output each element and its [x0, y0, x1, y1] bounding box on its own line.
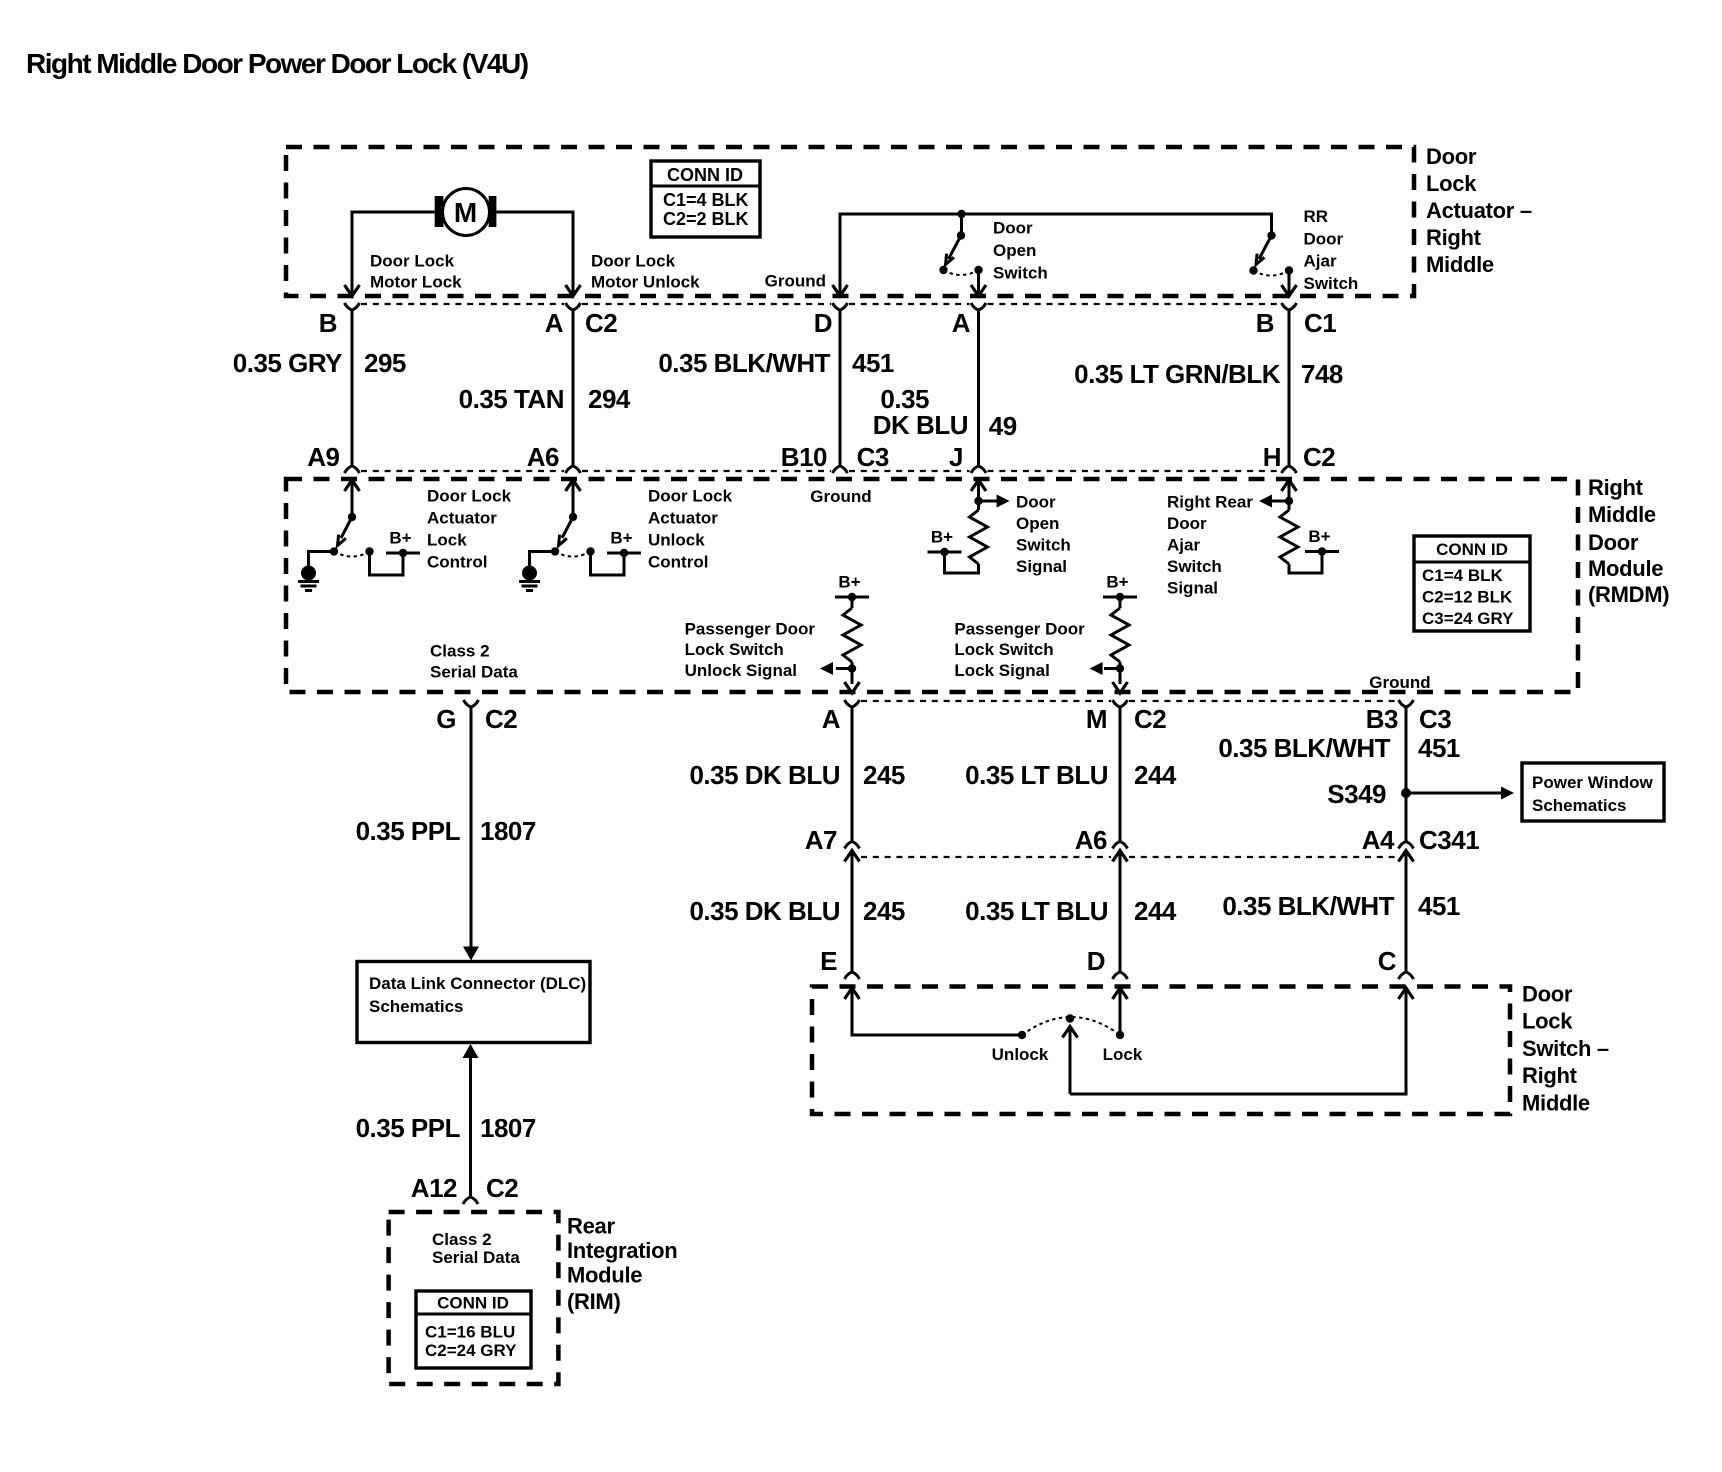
signal arrow left: [1104, 667, 1120, 670]
wire to ground: [530, 552, 556, 566]
C341 terminal pair at A7: [845, 842, 860, 862]
wire 748 LT GRN/BLK: [1288, 314, 1291, 466]
svg-text:0.35 BLK/WHT: 0.35 BLK/WHT: [1218, 733, 1390, 763]
wire 245 DK BLU (upper): [851, 713, 854, 842]
arrow at pin J: [971, 480, 986, 491]
svg-text:Door Lock: Door Lock: [591, 252, 676, 271]
svg-text:B: B: [319, 308, 337, 338]
right rear door ajar switch signal circuit: [1167, 480, 1339, 598]
wire to ground: [309, 552, 335, 566]
entry arrow E: [845, 988, 860, 999]
svg-text:(RMDM): (RMDM): [1588, 582, 1669, 607]
wire D to lock contact: [1119, 988, 1122, 1031]
svg-text:Serial Data: Serial Data: [430, 663, 518, 682]
unlock contact dot: [1018, 1031, 1026, 1039]
terminal A (switch): [971, 303, 986, 316]
B+ feed: [386, 529, 420, 558]
terminal A6: [566, 466, 581, 473]
terminal B10: [833, 466, 848, 473]
svg-text:245: 245: [863, 896, 905, 926]
svg-text:A6: A6: [1075, 825, 1107, 855]
svg-text:Switch: Switch: [1167, 557, 1222, 576]
CONN ID table (RIM): [416, 1291, 531, 1368]
junction dot: [1285, 497, 1293, 505]
contact dot right: [365, 547, 373, 555]
pivot dot: [348, 513, 356, 521]
svg-text:Signal: Signal: [1016, 557, 1067, 576]
lever with arrow: [949, 236, 962, 260]
wire 451 BLK/WHT (lower): [1405, 851, 1408, 973]
wire 451 BLK/WHT (upper): [1405, 713, 1408, 842]
arrow at pin A6: [566, 480, 581, 491]
signal arrow left: [1271, 500, 1289, 503]
signal arrow left: [836, 667, 852, 670]
terminal C (switch): [1399, 972, 1414, 979]
travel arc: [334, 552, 370, 557]
arrow into DLC: [463, 947, 479, 961]
svg-text:244: 244: [1134, 896, 1177, 926]
svg-text:0.35 LT BLU: 0.35 LT BLU: [965, 760, 1108, 790]
svg-text:A: A: [822, 704, 841, 734]
DLC box: [357, 962, 590, 1043]
svg-text:0.35 PPL: 0.35 PPL: [356, 816, 461, 846]
svg-text:Switch –: Switch –: [1522, 1036, 1609, 1061]
travel arc: [555, 552, 591, 557]
svg-text:B: B: [1256, 308, 1274, 338]
arrow to power window schematics: [1406, 792, 1501, 795]
arrow into pin B (ajar): [1282, 285, 1297, 296]
svg-text:C1: C1: [1304, 308, 1336, 338]
C341 terminal pair at A4: [1399, 842, 1414, 862]
svg-text:Door Lock: Door Lock: [427, 487, 512, 506]
pivot dot: [1267, 231, 1275, 239]
CONN ID table (RMDM): [1414, 536, 1530, 631]
svg-text:Lock Signal: Lock Signal: [954, 661, 1049, 680]
ground symbol: [519, 566, 540, 591]
svg-text:Switch: Switch: [1016, 536, 1071, 555]
switch stem: [960, 214, 963, 236]
svg-text:(RIM): (RIM): [567, 1289, 620, 1314]
junction dot: [848, 664, 856, 672]
svg-text:295: 295: [364, 348, 406, 378]
wire 244 LT BLU (upper): [1119, 713, 1122, 842]
svg-text:Schematics: Schematics: [1532, 796, 1627, 815]
B+ feed: [1305, 527, 1339, 556]
svg-text:B3: B3: [1366, 704, 1398, 734]
wire from terminal: [1288, 480, 1291, 510]
RMDM box (dashed): [286, 479, 1578, 692]
arrow into pin A: [566, 285, 581, 296]
travel arc (dashed): [1254, 271, 1290, 276]
svg-text:245: 245: [863, 760, 905, 790]
svg-text:0.35 DK BLU: 0.35 DK BLU: [689, 760, 840, 790]
label: Door Lock Actuator - Right Middle: [1426, 144, 1532, 277]
svg-text:A: A: [952, 308, 971, 338]
svg-text:Rear: Rear: [567, 1214, 615, 1239]
label: Right Middle Door Module (RMDM): [1588, 475, 1669, 607]
svg-text:0.35 BLK/WHT: 0.35 BLK/WHT: [658, 348, 830, 378]
terminal B (ajar): [1282, 303, 1297, 316]
contact dot right: [1285, 266, 1293, 274]
wire: [1119, 597, 1122, 608]
door lock actuator unlock control switch: [519, 480, 733, 591]
svg-text:Open: Open: [993, 241, 1036, 260]
B+ feed: [835, 573, 869, 602]
svg-text:0.35 LT BLU: 0.35 LT BLU: [965, 896, 1108, 926]
contact dot right: [974, 266, 982, 274]
junction dot: [1116, 664, 1124, 672]
svg-text:Actuator –: Actuator –: [1426, 198, 1532, 223]
svg-text:Module: Module: [1588, 556, 1663, 581]
svg-text:Ground: Ground: [765, 272, 826, 291]
svg-text:Lock Switch: Lock Switch: [954, 640, 1053, 659]
wire to connector: [977, 272, 980, 294]
travel arc (dashed): [944, 270, 979, 275]
contact dot right: [586, 547, 594, 555]
svg-text:DK BLU: DK BLU: [873, 410, 968, 440]
wire down to pivot: [572, 480, 575, 517]
svg-text:0.35 TAN: 0.35 TAN: [459, 384, 564, 414]
B+ feed: [1103, 573, 1137, 602]
svg-text:Unlock: Unlock: [992, 1045, 1049, 1064]
svg-text:E: E: [820, 946, 837, 976]
female terminal A12: [463, 1197, 478, 1204]
svg-text:451: 451: [1418, 733, 1460, 763]
terminal E: [845, 972, 860, 979]
lever with arrow: [341, 517, 352, 538]
svg-text:Middle: Middle: [1522, 1091, 1590, 1116]
B+ feed: [607, 529, 641, 558]
female terminal M: [1113, 700, 1128, 713]
junction dot: [974, 497, 982, 505]
svg-text:M: M: [454, 197, 477, 228]
svg-text:Lock: Lock: [427, 531, 467, 550]
resistor: [843, 608, 861, 662]
terminal B: [345, 303, 360, 316]
wire 451 BLK/WHT: [839, 314, 842, 466]
terminal J: [971, 466, 986, 473]
pull-up resistor: [970, 510, 988, 564]
female terminal B3: [1399, 700, 1414, 713]
wire 295 GRY: [351, 314, 354, 466]
svg-text:Module: Module: [567, 1263, 642, 1288]
pivot dot: [1066, 1014, 1074, 1022]
svg-text:Door: Door: [1304, 229, 1344, 248]
svg-text:Door Lock: Door Lock: [648, 487, 733, 506]
svg-text:A9: A9: [307, 442, 339, 472]
wire: motor lock side: [352, 212, 435, 294]
svg-text:M: M: [1086, 704, 1107, 734]
svg-text:S349: S349: [1327, 779, 1386, 809]
arrow at pin H: [1282, 480, 1297, 491]
RR door ajar switch SW2: [1249, 207, 1358, 294]
wire C to common: [1070, 988, 1406, 1094]
svg-text:C2: C2: [1303, 442, 1335, 472]
svg-text:Class 2: Class 2: [432, 1230, 492, 1249]
svg-text:Right: Right: [1426, 225, 1482, 250]
svg-text:Door: Door: [993, 219, 1033, 238]
wire down to pivot: [351, 480, 354, 517]
exit arrow down: [1113, 682, 1128, 693]
svg-text:G: G: [436, 704, 456, 734]
wire to B+: [370, 553, 404, 575]
svg-text:Door: Door: [1016, 493, 1056, 512]
svg-text:0.35 PPL: 0.35 PPL: [356, 1113, 461, 1143]
entry arrow D: [1113, 988, 1128, 999]
pull-up resistor: [1280, 510, 1298, 564]
svg-text:Door: Door: [1522, 982, 1573, 1007]
svg-text:Power Window: Power Window: [1532, 773, 1654, 792]
arrow into pin A (switch): [971, 285, 986, 296]
signal arrow right: [979, 500, 998, 503]
svg-text:B10: B10: [781, 442, 827, 472]
svg-text:Control: Control: [427, 553, 487, 572]
female terminal A: [845, 700, 860, 713]
entry arrow C: [1399, 988, 1414, 999]
arrow into pin D: [833, 285, 848, 296]
svg-text:Door: Door: [1426, 144, 1477, 169]
svg-text:Ajar: Ajar: [1167, 536, 1200, 555]
travel arc: [1022, 1017, 1120, 1035]
wire: ground jumper in actuator: [840, 214, 1272, 296]
lever with arrow: [562, 517, 573, 538]
wire from terminal: [977, 480, 980, 510]
wire to connector: [1288, 273, 1291, 295]
svg-text:Ground: Ground: [1369, 673, 1430, 692]
splice S349: [1401, 788, 1411, 798]
label: Door Lock Switch - Right Middle: [1522, 982, 1609, 1116]
svg-text:C1=4 BLK: C1=4 BLK: [663, 190, 749, 210]
svg-text:Ajar: Ajar: [1304, 252, 1337, 271]
door lock actuator lock control switch: [298, 480, 512, 591]
svg-text:Schematics: Schematics: [369, 997, 464, 1016]
wire: motor unlock side: [496, 212, 573, 294]
power window schematics box: [1522, 763, 1664, 821]
svg-text:Data Link Connector (DLC): Data Link Connector (DLC): [369, 974, 586, 993]
wire to B+: [591, 553, 625, 575]
svg-text:A7: A7: [805, 825, 837, 855]
arrow into pin B: [345, 285, 360, 296]
svg-text:Unlock: Unlock: [648, 531, 705, 550]
svg-text:0.35 LT GRN/BLK: 0.35 LT GRN/BLK: [1074, 359, 1281, 389]
svg-text:Class 2: Class 2: [430, 642, 490, 661]
wire down: [851, 662, 854, 684]
svg-text:J: J: [949, 442, 963, 472]
svg-text:Actuator: Actuator: [648, 509, 718, 528]
terminal A: [566, 303, 581, 316]
svg-text:Open: Open: [1016, 514, 1059, 533]
svg-text:0.35 GRY: 0.35 GRY: [233, 348, 342, 378]
lever with arrow: [1259, 236, 1272, 260]
svg-text:C1=4 BLK: C1=4 BLK: [1422, 566, 1503, 585]
svg-text:Door: Door: [1588, 530, 1639, 555]
exit arrow down: [845, 682, 860, 693]
junction dot on jumper: [957, 210, 965, 218]
wire: [851, 597, 854, 608]
svg-text:RR: RR: [1304, 207, 1329, 226]
svg-text:Switch: Switch: [993, 264, 1048, 283]
svg-text:A6: A6: [527, 442, 559, 472]
svg-text:Door: Door: [1167, 514, 1207, 533]
svg-text:C2=12 BLK: C2=12 BLK: [1422, 588, 1513, 607]
svg-text:0.35 BLK/WHT: 0.35 BLK/WHT: [1222, 891, 1394, 921]
wire 1807 PPL (upper): [470, 713, 473, 948]
RIM box (dashed): [389, 1212, 559, 1384]
svg-text:C2: C2: [486, 1173, 518, 1203]
CONN ID table (actuator): [651, 161, 760, 237]
svg-text:Right: Right: [1522, 1063, 1578, 1088]
svg-text:Lock: Lock: [1426, 171, 1477, 196]
svg-text:Motor Lock: Motor Lock: [370, 273, 462, 292]
svg-text:294: 294: [588, 384, 631, 414]
svg-text:451: 451: [1418, 891, 1460, 921]
wire 294 TAN: [572, 314, 575, 466]
wire 49 DK BLU: [977, 314, 980, 466]
arrow out of DLC bottom: [463, 1044, 479, 1058]
svg-text:Passenger Door: Passenger Door: [954, 620, 1085, 639]
svg-text:Integration: Integration: [567, 1238, 677, 1263]
svg-text:C3=24 GRY: C3=24 GRY: [1422, 609, 1514, 628]
svg-text:Passenger Door: Passenger Door: [685, 620, 816, 639]
female terminal G: [464, 700, 479, 713]
svg-text:Right: Right: [1588, 475, 1644, 500]
connector line row1 (thin dashed): [361, 303, 1280, 305]
svg-text:Signal: Signal: [1167, 579, 1218, 598]
B+ feed: [928, 528, 962, 557]
svg-text:A12: A12: [411, 1173, 457, 1203]
svg-text:Lock: Lock: [1103, 1045, 1143, 1064]
terminal H: [1282, 466, 1297, 473]
terminal D (switch): [1113, 972, 1128, 979]
wire to B+: [945, 552, 979, 573]
svg-text:C341: C341: [1419, 825, 1479, 855]
door lock switch box (dashed): [812, 987, 1510, 1115]
label: Class 2 Serial Data (RIM): [432, 1230, 520, 1267]
svg-text:C2: C2: [1134, 704, 1166, 734]
passenger door lock switch unlock signal circuit: [685, 573, 869, 694]
svg-text:C2: C2: [585, 308, 617, 338]
svg-text:451: 451: [852, 348, 894, 378]
contact dot left: [330, 547, 338, 555]
label: Rear Integration Module (RIM): [567, 1214, 677, 1315]
svg-text:Right Middle Door Power Door L: Right Middle Door Power Door Lock (V4U): [26, 48, 528, 79]
pivot dot: [569, 513, 577, 521]
connector line row3 (thin dashed): [861, 700, 1397, 702]
svg-text:Control: Control: [648, 553, 708, 572]
svg-text:0.35 DK BLU: 0.35 DK BLU: [689, 896, 840, 926]
common pole arrow up: [1069, 1029, 1072, 1094]
motor M: [435, 189, 497, 236]
svg-text:C2: C2: [485, 704, 517, 734]
door lock actuator box (dashed): [286, 147, 1414, 296]
svg-text:C3: C3: [857, 442, 889, 472]
svg-text:H: H: [1263, 442, 1281, 472]
svg-text:C3: C3: [1419, 704, 1451, 734]
svg-text:Switch: Switch: [1304, 274, 1359, 293]
svg-text:Lock: Lock: [1522, 1009, 1573, 1034]
svg-text:Unlock Signal: Unlock Signal: [685, 661, 797, 680]
wire down: [1119, 662, 1122, 684]
wire E to unlock contact: [852, 988, 1022, 1035]
wire to B+: [1289, 552, 1322, 574]
svg-text:49: 49: [989, 411, 1017, 441]
svg-text:Middle: Middle: [1588, 502, 1656, 527]
lock switch internals: [845, 988, 1414, 1094]
contact dot left: [939, 266, 947, 274]
contact dot left: [1249, 266, 1257, 274]
svg-text:Middle: Middle: [1426, 252, 1494, 277]
svg-text:CONN ID: CONN ID: [437, 1294, 509, 1313]
lock contact dot: [1116, 1031, 1124, 1039]
inline connector C341 (thin dashed): [861, 856, 1397, 858]
wire 1807 PPL (lower): [469, 1058, 472, 1197]
pivot dot: [957, 231, 965, 239]
svg-text:Door Lock: Door Lock: [370, 252, 455, 271]
door open switch signal circuit: [928, 480, 1071, 576]
svg-text:Motor Unlock: Motor Unlock: [591, 273, 700, 292]
arrow at pin A9: [345, 480, 360, 491]
label: Door Lock Motor Unlock: [591, 252, 700, 292]
svg-text:A: A: [545, 308, 564, 338]
contact dot left: [551, 547, 559, 555]
ground symbol: [298, 566, 319, 591]
svg-text:Serial Data: Serial Data: [432, 1248, 520, 1267]
svg-text:D: D: [814, 308, 832, 338]
connector line row2 (thin dashed): [361, 470, 1280, 472]
svg-text:Lock Switch: Lock Switch: [685, 640, 784, 659]
svg-text:A4: A4: [1362, 825, 1395, 855]
label: Door Lock Motor Lock: [370, 252, 462, 292]
resistor: [1111, 608, 1129, 662]
label: Class 2 Serial Data (RMDM): [430, 642, 518, 682]
svg-text:CONN ID: CONN ID: [667, 165, 743, 185]
wire 244 LT BLU (lower): [1119, 851, 1122, 973]
svg-text:748: 748: [1301, 359, 1343, 389]
svg-text:D: D: [1087, 946, 1105, 976]
svg-text:C1=16 BLU: C1=16 BLU: [425, 1323, 515, 1342]
svg-text:Actuator: Actuator: [427, 509, 497, 528]
terminal D: [833, 303, 848, 316]
svg-text:244: 244: [1134, 760, 1177, 790]
C341 terminal pair at A6: [1113, 842, 1128, 862]
svg-text:1807: 1807: [480, 816, 536, 846]
wire 245 DK BLU (lower): [851, 851, 854, 973]
passenger door lock switch lock signal circuit: [954, 573, 1137, 694]
svg-text:C: C: [1378, 946, 1397, 976]
svg-text:CONN ID: CONN ID: [1436, 540, 1508, 559]
door open switch SW1: [939, 210, 1047, 294]
svg-text:Ground: Ground: [810, 487, 871, 506]
terminal A9: [345, 466, 360, 473]
svg-text:1807: 1807: [480, 1113, 536, 1143]
svg-text:C2=24 GRY: C2=24 GRY: [425, 1341, 517, 1360]
svg-text:C2=2 BLK: C2=2 BLK: [663, 209, 749, 229]
svg-text:Right Rear: Right Rear: [1167, 493, 1253, 512]
